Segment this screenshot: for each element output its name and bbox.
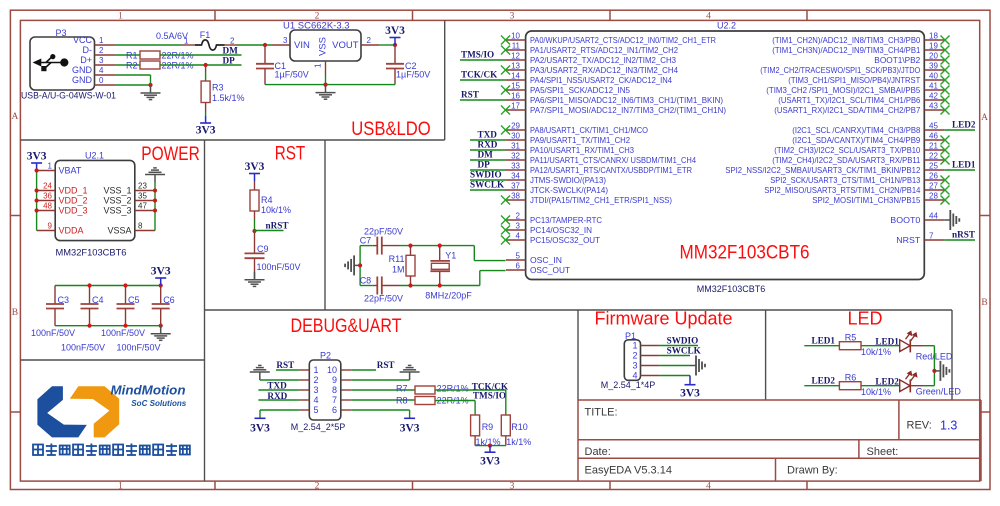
- svg-text:2: 2: [516, 211, 521, 220]
- wire P2 pin1 RST: [276, 369, 299, 371]
- svg-text:PA1/USART2_RTS/ADC12_IN1/TIM2_: PA1/USART2_RTS/ADC12_IN1/TIM2_CH2: [530, 45, 678, 55]
- no-connect X: [941, 156, 950, 165]
- svg-text:(I2C1_SCL /CANRX)/TIM4_CH3/PB8: (I2C1_SCL /CANRX)/TIM4_CH3/PB8: [792, 125, 920, 135]
- U2.2 pin 19 PB1: [924, 49, 944, 51]
- svg-text:VIN: VIN: [294, 40, 310, 51]
- U2.2 pin 10 PA0: [506, 39, 526, 41]
- wire P2 pin3 TXD: [258, 389, 299, 391]
- U2.2 pin 31 PA10: [506, 149, 526, 151]
- svg-text:40: 40: [929, 71, 938, 80]
- svg-text:B: B: [12, 308, 18, 318]
- wire D- to R1: [115, 54, 140, 56]
- svg-text:JTCK-SWCLK/(PA14): JTCK-SWCLK/(PA14): [530, 185, 608, 195]
- svg-text:42: 42: [929, 91, 938, 100]
- svg-text:PA11/USART1_CTS/CANRX/ USBDM/T: PA11/USART1_CTS/CANRX/ USBDM/TIM1_CH4: [530, 155, 696, 165]
- IC U2.1: [55, 160, 135, 240]
- junction Y1 bottom: [438, 283, 442, 287]
- wire to OSC_IN: [473, 246, 475, 261]
- no-connect X: [941, 66, 950, 75]
- wire SWCLK: [659, 355, 690, 357]
- resistor R5 10k/1%: [839, 342, 861, 350]
- wire VSS vertical: [154, 183, 156, 231]
- svg-text:PA3/USART2_RX/ADC12_IN3/TIM2_C: PA3/USART2_RX/ADC12_IN3/TIM2_CH4: [530, 65, 678, 75]
- svg-text:DEBUG&UART: DEBUG&UART: [291, 316, 402, 337]
- svg-text:8MHz/20pF: 8MHz/20pF: [425, 290, 472, 300]
- U2.1 pin 36 VDD_2: [37, 200, 56, 202]
- no-connect X: [501, 196, 510, 205]
- P3 pin 2 D-: [95, 54, 116, 56]
- svg-text:LED1: LED1: [952, 160, 976, 170]
- svg-text:VCC: VCC: [73, 35, 93, 45]
- svg-text:PA9/USART1_TX/TIM1_CH2: PA9/USART1_TX/TIM1_CH2: [530, 135, 630, 145]
- svg-text:14: 14: [511, 71, 520, 80]
- svg-text:100nF/50V: 100nF/50V: [116, 343, 160, 353]
- no-connect X: [941, 46, 950, 55]
- junction VSS_3: [153, 208, 157, 212]
- svg-text:100nF/50V: 100nF/50V: [101, 328, 145, 338]
- resistor R1 22R/1%: [140, 51, 160, 59]
- svg-text:(TIM2_CH3)/I2C2_SCL/USART3_TX/: (TIM2_CH3)/I2C2_SCL/USART3_TX/PB10: [774, 145, 920, 155]
- IC U1 SC662K-3.3: [290, 30, 361, 61]
- svg-text:VSSA: VSSA: [107, 226, 131, 236]
- power flag 3V3 caps: [160, 278, 162, 286]
- no-connect X: [501, 46, 510, 55]
- wire VCC to fuse: [115, 44, 182, 46]
- svg-text:3: 3: [314, 385, 319, 395]
- ground P2 left: [259, 372, 261, 380]
- svg-text:6: 6: [516, 261, 521, 270]
- svg-text:REV:: REV:: [907, 420, 932, 432]
- U2.2 pin 21 PB10: [924, 149, 944, 151]
- junction LED gnd: [932, 369, 936, 373]
- svg-text:D-: D-: [83, 45, 93, 55]
- svg-text:C3: C3: [58, 295, 70, 305]
- svg-text:OSC_OUT: OSC_OUT: [530, 265, 570, 275]
- svg-text:RST: RST: [377, 360, 395, 370]
- svg-text:3: 3: [99, 56, 104, 65]
- svg-text:24: 24: [43, 182, 52, 191]
- wire TCK/CK net: [435, 389, 506, 391]
- svg-text:MM32F103CBT6: MM32F103CBT6: [680, 243, 810, 264]
- U2.2 pin 25 PB12: [924, 169, 944, 171]
- P2 pin 2: [299, 379, 309, 381]
- wire P1 pin4 3V3: [659, 375, 690, 377]
- wire to LED: [861, 345, 900, 347]
- svg-text:BOOT1\PB2: BOOT1\PB2: [874, 55, 920, 65]
- svg-text:C5: C5: [128, 295, 140, 305]
- junction VDD_3: [35, 208, 39, 212]
- svg-text:1: 1: [99, 36, 104, 45]
- svg-text:1µF/50V: 1µF/50V: [396, 70, 430, 80]
- wire P2 pin5 3V3: [260, 409, 299, 411]
- U2.2 pin 42 PB6: [924, 99, 944, 101]
- svg-text:1: 1: [48, 162, 53, 171]
- svg-text:4: 4: [314, 395, 319, 405]
- svg-text:(USART1_TX)/I2C1_SCL/TIM4_CH1/: (USART1_TX)/I2C1_SCL/TIM4_CH1/PB6: [778, 95, 920, 105]
- svg-text:10k/1%: 10k/1%: [861, 387, 891, 397]
- svg-text:2: 2: [632, 351, 637, 361]
- svg-text:DM: DM: [223, 46, 239, 56]
- capacitor C2 1uF/50V: [394, 45, 396, 64]
- wire P2 pin4 RXD: [258, 399, 299, 401]
- U2.2 pin 34 JTMS-SWDIO: [506, 179, 526, 181]
- svg-text:4: 4: [99, 66, 104, 75]
- svg-text:R10: R10: [511, 422, 528, 432]
- svg-text:SWCLK: SWCLK: [667, 345, 702, 355]
- U2.1 pin 48 VDD_3: [37, 210, 56, 212]
- svg-text:(TIM2_CH4)/I2C2_SDA/USART3_RX/: (TIM2_CH4)/I2C2_SDA/USART3_RX/PB11: [772, 155, 920, 165]
- svg-text:10: 10: [511, 31, 520, 40]
- wire P1 pin3 gnd: [659, 365, 690, 367]
- capacitor C4 100nF/50V: [89, 286, 91, 305]
- svg-text:OSC_IN: OSC_IN: [530, 255, 562, 265]
- svg-text:VSS: VSS: [318, 37, 329, 56]
- svg-text:17: 17: [511, 101, 520, 110]
- junction cap bus: [159, 283, 163, 287]
- svg-text:VOUT: VOUT: [332, 40, 359, 51]
- junction VSS bus: [323, 83, 327, 87]
- MindMotion logo orange shape: [70, 386, 119, 437]
- svg-text:R8: R8: [396, 395, 408, 405]
- power flag 3V3 P2 right: [404, 417, 415, 419]
- svg-text:30: 30: [511, 131, 520, 140]
- wire P2 pin2 gnd: [260, 379, 299, 381]
- U2.2 pin 13 PA3: [506, 69, 526, 71]
- junction cap bus: [87, 283, 91, 287]
- svg-text:0: 0: [99, 76, 104, 85]
- svg-text:PA4/SPI1_NSS/USART2_CK/ADC12_I: PA4/SPI1_NSS/USART2_CK/ADC12_IN4: [530, 75, 672, 85]
- svg-text:3V3: 3V3: [400, 422, 420, 434]
- U2.2 pin 41 PB5: [924, 89, 944, 91]
- svg-text:U1 SC662K-3.3: U1 SC662K-3.3: [283, 21, 350, 32]
- U2.1 pin 24 VDD_1: [37, 190, 56, 192]
- no-connect X: [941, 76, 950, 85]
- svg-text:100nF/50V: 100nF/50V: [31, 328, 75, 338]
- svg-text:3: 3: [510, 482, 515, 492]
- svg-text:3V3: 3V3: [385, 25, 405, 37]
- wire net TXD: [470, 139, 506, 141]
- svg-text:Drawn By:: Drawn By:: [787, 465, 838, 477]
- wire net DM: [470, 159, 506, 161]
- wire net LED2: [944, 129, 975, 131]
- svg-text:(TIM3_CH1/SPI1_MISO/PB4)/JNTRS: (TIM3_CH1/SPI1_MISO/PB4)/JNTRST: [788, 75, 920, 85]
- svg-text:7: 7: [332, 395, 337, 405]
- svg-text:44: 44: [929, 211, 938, 220]
- svg-text:VDDA: VDDA: [59, 226, 84, 236]
- connector P2: [309, 360, 341, 420]
- wire TMS/IO net: [435, 400, 475, 402]
- logo Chinese company name (glyph approximation): [33, 445, 43, 456]
- power flag 3V3 at VOUT: [394, 38, 396, 46]
- svg-text:TCK/CK: TCK/CK: [461, 70, 498, 80]
- svg-text:1M: 1M: [392, 265, 405, 275]
- svg-text:C9: C9: [257, 244, 269, 254]
- resistor R8 22R/1%: [415, 397, 435, 405]
- no-connect X: [501, 106, 510, 115]
- svg-text:Date:: Date:: [585, 446, 611, 458]
- svg-text:P3: P3: [55, 28, 66, 38]
- wire cap top bus: [55, 285, 161, 287]
- capacitor C5 100nF/50V: [125, 286, 127, 305]
- U2.2 pin 6 OSC_OUT: [506, 269, 526, 271]
- U2.2 pin 33 PA12: [506, 169, 526, 171]
- junction VDD_2: [35, 198, 39, 202]
- junction VSS_1: [153, 188, 157, 192]
- svg-text:41: 41: [929, 81, 938, 90]
- power flag 3V3 R9R10: [489, 446, 491, 453]
- resistor R10 1k/1%: [501, 415, 510, 436]
- junction C1/VIN: [263, 43, 267, 47]
- U2.2 pin 26 PB13: [924, 179, 944, 181]
- svg-text:LED2: LED2: [812, 375, 836, 385]
- svg-text:F1: F1: [200, 30, 211, 40]
- svg-text:RXD: RXD: [478, 140, 498, 150]
- svg-text:1: 1: [118, 12, 123, 22]
- svg-text:SPI2_NSS/I2C2_SMBAI/USART3_CK/: SPI2_NSS/I2C2_SMBAI/USART3_CK/TIM1_BKIN/…: [725, 165, 920, 175]
- svg-text:26: 26: [929, 171, 938, 180]
- svg-text:3V3: 3V3: [27, 151, 47, 163]
- U2.2 pin 38 JTDI: [506, 199, 526, 201]
- svg-text:C6: C6: [163, 295, 175, 305]
- wire LED2: [804, 385, 839, 387]
- no-connect X: [941, 186, 950, 195]
- no-connect X: [501, 226, 510, 235]
- U2.2 pin 29 PA8: [506, 129, 526, 131]
- IC U2.2 MM32F103CBT6: [526, 31, 925, 280]
- wire fuse to VIN: [237, 44, 272, 46]
- svg-text:P2: P2: [320, 351, 331, 361]
- svg-text:27: 27: [929, 181, 938, 190]
- svg-text:2: 2: [314, 375, 319, 385]
- svg-text:3: 3: [510, 12, 515, 22]
- junction R11 top: [408, 244, 412, 248]
- P3 pin 4 GND: [95, 74, 116, 76]
- wire D+ to R2: [115, 64, 140, 66]
- svg-text:1: 1: [184, 37, 189, 46]
- U2.2 pin 11 PA1: [506, 49, 526, 51]
- svg-text:TXD: TXD: [267, 380, 287, 390]
- P1 pin 4: [641, 375, 660, 377]
- U2.1 pin 35 VSS_2: [135, 200, 155, 202]
- svg-text:RST: RST: [275, 144, 306, 165]
- no-connect X: [501, 126, 510, 135]
- wire crystal top bus: [399, 245, 474, 247]
- junction R3/DP: [204, 63, 208, 67]
- svg-text:2: 2: [367, 36, 372, 45]
- svg-text:(USART1_RX)/I2C1_SDA/TIM4_CH2/: (USART1_RX)/I2C1_SDA/TIM4_CH2/PB7: [774, 105, 920, 115]
- ground BOOT0: [944, 219, 950, 221]
- MindMotion logo blue shape: [37, 386, 86, 437]
- capacitor C7 22pF/50V: [360, 245, 373, 247]
- P2 pin 9: [341, 379, 351, 381]
- svg-text:JTMS-SWDIO/(PA13): JTMS-SWDIO/(PA13): [530, 175, 606, 185]
- wire P2 pin9 gnd: [351, 379, 409, 381]
- U2.2 pin 7 NRST: [924, 239, 944, 241]
- svg-text:RST: RST: [461, 90, 479, 100]
- svg-text:3: 3: [283, 36, 288, 45]
- svg-text:NRST: NRST: [896, 235, 920, 245]
- ground C9: [254, 272, 256, 280]
- P2 pin 3: [299, 389, 309, 391]
- P3 pin 0 GND: [95, 84, 116, 86]
- resistor R9 1k/1%: [471, 415, 480, 436]
- svg-text:8: 8: [138, 222, 143, 231]
- svg-text:(I2C1_SDA/CANTX)/TIM4_CH4/PB9: (I2C1_SDA/CANTX)/TIM4_CH4/PB9: [792, 135, 920, 145]
- U2.2 pin 46 PB9: [924, 139, 944, 141]
- svg-text:PA7/SPI1_MOSI/ADC12_IN7/TIM3_C: PA7/SPI1_MOSI/ADC12_IN7/TIM3_CH2/(TIM1_C…: [530, 105, 726, 115]
- ground VSS (inverted): [154, 175, 156, 183]
- wire to gnd riser: [924, 345, 935, 347]
- wire net nRST: [944, 239, 975, 241]
- svg-text:Sheet:: Sheet:: [867, 446, 899, 458]
- svg-text:VDD_1: VDD_1: [59, 186, 88, 196]
- svg-text:TMS/IO: TMS/IO: [473, 391, 506, 401]
- no-connect X: [941, 176, 950, 185]
- U2.1 pin 47 VSS_3: [135, 210, 155, 212]
- svg-text:(TIM1_CH2N)/ADC12_IN8/TIM3_CH3: (TIM1_CH2N)/ADC12_IN8/TIM3_CH3/PB0: [772, 35, 920, 45]
- ground P3: [150, 85, 152, 93]
- svg-text:GND: GND: [72, 75, 93, 85]
- svg-text:48: 48: [43, 202, 52, 211]
- U2.2 pin 43 PB7: [924, 109, 944, 111]
- svg-text:18: 18: [929, 31, 938, 40]
- U2.2 pin 2 PC13: [506, 219, 526, 221]
- svg-text:RXD: RXD: [267, 391, 287, 401]
- svg-text:10k/1%: 10k/1%: [261, 205, 291, 215]
- svg-text:USB-A/U-G-04WS-W-01: USB-A/U-G-04WS-W-01: [21, 91, 116, 102]
- svg-text:LED1: LED1: [812, 335, 836, 345]
- svg-text:R5: R5: [845, 333, 857, 343]
- svg-text:9: 9: [332, 375, 337, 385]
- section box lines: [20, 139, 444, 141]
- svg-text:B: B: [981, 298, 987, 308]
- svg-text:MM32F103CBT6: MM32F103CBT6: [56, 248, 127, 258]
- P3 pin 3 D+: [95, 64, 116, 66]
- svg-text:3V3: 3V3: [196, 125, 216, 137]
- U2.2 pin 4 PC15: [506, 239, 526, 241]
- resistor R3 1.5k/1%: [205, 65, 207, 72]
- svg-text:SWCLK: SWCLK: [470, 180, 505, 190]
- svg-text:5: 5: [516, 251, 521, 260]
- svg-text:1: 1: [632, 341, 637, 351]
- wire net RST: [460, 99, 506, 101]
- svg-text:9: 9: [48, 222, 53, 231]
- svg-text:22R/1%: 22R/1%: [437, 383, 469, 393]
- power flag 3V3 P1: [689, 376, 691, 385]
- ground U1: [325, 85, 327, 93]
- wire nRST: [255, 230, 284, 232]
- ground LED: [934, 370, 940, 372]
- svg-text:PC13/TAMPER-RTC: PC13/TAMPER-RTC: [530, 215, 602, 225]
- resistor R7 22R/1%: [415, 386, 435, 394]
- svg-text:2: 2: [99, 46, 104, 55]
- svg-text:4: 4: [516, 231, 521, 240]
- svg-text:R11: R11: [389, 254, 405, 264]
- ground P1: [690, 365, 696, 367]
- svg-text:46: 46: [929, 131, 938, 140]
- wire net LED1: [944, 169, 975, 171]
- svg-text:12: 12: [511, 51, 520, 60]
- svg-text:SWDIO: SWDIO: [667, 335, 699, 345]
- U2.2 pin 3 PC14: [506, 229, 526, 231]
- no-connect X: [941, 106, 950, 115]
- svg-text:47: 47: [138, 202, 147, 211]
- resistor R2 22R/1%: [140, 61, 160, 69]
- wire P2 pin6 3V3: [351, 409, 409, 411]
- U2.1 pin 23 VSS_1: [135, 190, 155, 192]
- junction nRST: [252, 229, 256, 233]
- wire net DP: [470, 169, 506, 171]
- ground caps: [160, 326, 162, 334]
- svg-text:USB&LDO: USB&LDO: [351, 119, 431, 140]
- no-connect X: [941, 36, 950, 45]
- svg-text:22: 22: [929, 151, 938, 160]
- svg-text:MindMotion: MindMotion: [111, 384, 186, 398]
- svg-text:22pF/50V: 22pF/50V: [364, 294, 403, 304]
- U2.2 pin 17 PA7: [506, 109, 526, 111]
- wire crystal bottom bus: [399, 285, 480, 287]
- P2 pin 7: [341, 399, 351, 401]
- no-connect X: [941, 96, 950, 105]
- U2.2 pin 40 JNTRST: [924, 79, 944, 81]
- U2.2 pin 16 PA6: [506, 99, 526, 101]
- wire to gnd riser: [924, 385, 935, 387]
- svg-text:2: 2: [230, 37, 235, 46]
- connector P3: [30, 37, 95, 90]
- svg-text:45: 45: [929, 121, 938, 130]
- U2.2 pin 45 PB8: [924, 129, 944, 131]
- wire net TMS/IO: [460, 59, 506, 61]
- wire LED1: [804, 345, 839, 347]
- svg-text:VSS_3: VSS_3: [103, 206, 131, 216]
- junction GND: [148, 83, 152, 87]
- svg-text:LED2: LED2: [952, 120, 976, 130]
- capacitor C9 100nF/50V: [254, 231, 256, 253]
- U2.2 pin 30 PA9: [506, 139, 526, 141]
- svg-text:PC14/OSC32_IN: PC14/OSC32_IN: [530, 225, 592, 235]
- svg-text:20: 20: [929, 51, 938, 60]
- wire VDD vertical: [36, 171, 38, 231]
- power flag 3V3 P2 left: [255, 417, 266, 419]
- svg-text:21: 21: [929, 141, 938, 150]
- svg-text:28: 28: [929, 191, 938, 200]
- svg-text:1.3: 1.3: [940, 419, 957, 433]
- no-connect X: [501, 236, 510, 245]
- svg-text:M_2.54_2*5P: M_2.54_2*5P: [291, 422, 346, 432]
- svg-text:SPI2_MOSI/TIM1_CH3N/PB15: SPI2_MOSI/TIM1_CH3N/PB15: [812, 195, 920, 205]
- svg-text:38: 38: [511, 191, 520, 200]
- svg-text:R4: R4: [261, 195, 273, 205]
- svg-text:43: 43: [929, 101, 938, 110]
- svg-text:R2: R2: [126, 61, 138, 71]
- svg-text:100nF/50V: 100nF/50V: [61, 343, 105, 353]
- svg-text:TITLE:: TITLE:: [585, 407, 618, 419]
- fuse F1 0.5A/6V: [195, 40, 225, 50]
- svg-text:D+: D+: [80, 55, 92, 65]
- P2 pin 10: [341, 369, 351, 371]
- svg-text:M_2.54_1*4P: M_2.54_1*4P: [601, 380, 656, 390]
- svg-text:33: 33: [511, 161, 520, 170]
- wire DM net: [160, 54, 242, 56]
- svg-text:PA0/WKUP/USART2_CTS/ADC12_IN0/: PA0/WKUP/USART2_CTS/ADC12_IN0/TIM2_CH1_E…: [530, 35, 716, 45]
- P3 pin 1 VCC: [95, 44, 116, 46]
- resistor R4 10k/1%: [250, 190, 259, 211]
- svg-text:PA10/USART1_RX/TIM1_CH3: PA10/USART1_RX/TIM1_CH3: [530, 145, 634, 155]
- svg-text:nRST: nRST: [266, 220, 289, 230]
- svg-text:22pF/50V: 22pF/50V: [364, 227, 403, 237]
- svg-text:DP: DP: [223, 56, 236, 66]
- svg-text:VDD_2: VDD_2: [59, 196, 88, 206]
